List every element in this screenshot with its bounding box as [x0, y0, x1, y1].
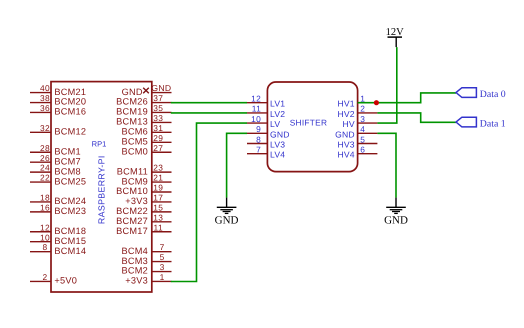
svg-text:LV4: LV4: [270, 150, 285, 160]
svg-text:RP1: RP1: [92, 139, 107, 148]
svg-text:11: 11: [252, 104, 262, 114]
svg-text:HV1: HV1: [337, 99, 354, 109]
svg-text:13: 13: [153, 212, 163, 222]
svg-text:7: 7: [160, 242, 165, 252]
svg-text:BCM6: BCM6: [121, 127, 148, 137]
svg-text:15: 15: [153, 202, 163, 212]
svg-text:24: 24: [40, 163, 50, 173]
svg-text:BCM15: BCM15: [54, 236, 86, 246]
svg-text:12: 12: [251, 94, 261, 104]
svg-text:LV: LV: [270, 119, 280, 129]
svg-text:RASPBERRY-PI: RASPBERRY-PI: [96, 155, 106, 224]
svg-text:35: 35: [153, 103, 163, 113]
svg-text:16: 16: [40, 202, 50, 212]
svg-text:LV3: LV3: [270, 140, 285, 150]
svg-text:37: 37: [153, 93, 163, 103]
svg-text:BCM0: BCM0: [121, 146, 148, 156]
svg-text:40: 40: [40, 83, 50, 93]
svg-text:GND: GND: [270, 129, 290, 139]
svg-text:BCM7: BCM7: [54, 156, 81, 166]
svg-text:BCM19: BCM19: [116, 107, 148, 117]
svg-text:GND: GND: [335, 129, 355, 139]
svg-text:BCM8: BCM8: [54, 166, 81, 176]
svg-text:8: 8: [42, 242, 47, 252]
svg-text:LV1: LV1: [270, 99, 285, 109]
svg-text:26: 26: [40, 153, 50, 163]
svg-text:BCM24: BCM24: [54, 196, 86, 206]
svg-text:GND: GND: [122, 87, 143, 97]
svg-text:HV2: HV2: [337, 109, 354, 119]
svg-text:22: 22: [40, 173, 50, 183]
svg-text:5: 5: [160, 252, 165, 262]
svg-text:32: 32: [40, 123, 50, 133]
svg-text:BCM27: BCM27: [116, 216, 148, 226]
svg-text:BCM14: BCM14: [54, 246, 86, 256]
svg-text:1: 1: [160, 272, 165, 282]
svg-text:BCM26: BCM26: [116, 97, 148, 107]
svg-text:+3V3: +3V3: [125, 276, 148, 286]
svg-text:BCM23: BCM23: [54, 206, 86, 216]
svg-text:GND: GND: [151, 83, 171, 93]
svg-text:BCM16: BCM16: [54, 107, 86, 117]
svg-text:4: 4: [360, 124, 365, 134]
svg-text:29: 29: [153, 133, 163, 143]
svg-text:5: 5: [360, 134, 365, 144]
svg-text:BCM3: BCM3: [121, 256, 148, 266]
svg-text:18: 18: [40, 193, 50, 203]
svg-text:BCM20: BCM20: [54, 97, 86, 107]
svg-text:GND: GND: [384, 214, 408, 226]
svg-text:36: 36: [40, 103, 50, 113]
svg-text:28: 28: [40, 143, 50, 153]
svg-text:+5V0: +5V0: [54, 276, 77, 286]
svg-text:HV: HV: [342, 119, 354, 129]
svg-text:17: 17: [153, 193, 163, 203]
svg-text:BCM21: BCM21: [54, 87, 86, 97]
svg-text:BCM5: BCM5: [121, 137, 148, 147]
svg-text:31: 31: [153, 123, 163, 133]
svg-text:BCM9: BCM9: [121, 176, 148, 186]
svg-text:Data 1: Data 1: [480, 119, 506, 130]
svg-text:BCM25: BCM25: [54, 176, 86, 186]
svg-text:11: 11: [154, 222, 164, 232]
svg-text:3: 3: [360, 114, 365, 124]
svg-text:BCM11: BCM11: [117, 166, 148, 176]
svg-text:2: 2: [42, 272, 47, 282]
svg-text:38: 38: [40, 93, 50, 103]
svg-text:HV4: HV4: [337, 150, 354, 160]
svg-text:LV2: LV2: [270, 109, 285, 119]
svg-text:+3V3: +3V3: [125, 196, 148, 206]
svg-text:10: 10: [251, 114, 261, 124]
svg-text:SHIFTER: SHIFTER: [290, 117, 328, 127]
svg-text:GND: GND: [215, 214, 239, 226]
svg-text:2: 2: [360, 104, 365, 114]
svg-text:23: 23: [153, 163, 163, 173]
svg-text:BCM4: BCM4: [121, 246, 148, 256]
svg-text:BCM10: BCM10: [116, 186, 148, 196]
svg-text:BCM13: BCM13: [116, 117, 148, 127]
svg-text:9: 9: [256, 124, 261, 134]
svg-text:12: 12: [40, 222, 50, 232]
svg-text:BCM18: BCM18: [54, 226, 86, 236]
svg-text:19: 19: [153, 183, 163, 193]
svg-text:12V: 12V: [386, 27, 405, 38]
svg-text:BCM22: BCM22: [116, 206, 148, 216]
svg-text:10: 10: [40, 232, 50, 242]
svg-text:3: 3: [160, 262, 165, 272]
svg-text:7: 7: [256, 145, 261, 155]
svg-text:BCM1: BCM1: [54, 146, 81, 156]
svg-text:21: 21: [153, 173, 163, 183]
svg-text:BCM12: BCM12: [54, 127, 86, 137]
svg-text:33: 33: [153, 113, 163, 123]
svg-text:Data 0: Data 0: [480, 89, 506, 100]
svg-text:27: 27: [153, 143, 163, 153]
svg-text:BCM17: BCM17: [116, 226, 148, 236]
svg-text:HV3: HV3: [337, 140, 354, 150]
svg-text:6: 6: [360, 145, 365, 155]
svg-text:BCM2: BCM2: [121, 266, 148, 276]
svg-text:8: 8: [256, 134, 261, 144]
